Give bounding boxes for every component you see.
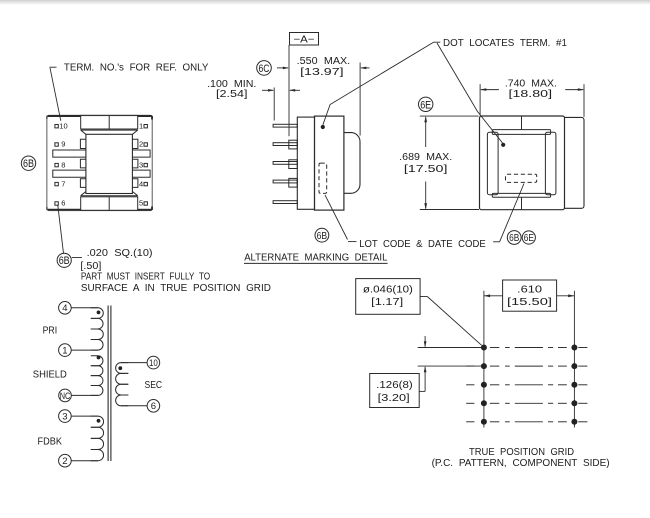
svg-text:TRUE POSITION GRID: TRUE POSITION GRID — [469, 447, 574, 458]
svg-text:10: 10 — [149, 358, 158, 369]
svg-text:6: 6 — [151, 401, 156, 412]
svg-text:[2.54]: [2.54] — [216, 89, 248, 100]
svg-text:6C: 6C — [259, 63, 270, 75]
svg-text:[15.50]: [15.50] — [507, 297, 552, 308]
svg-text:PRI: PRI — [43, 325, 58, 336]
svg-text:9: 9 — [61, 140, 65, 149]
svg-text:.610: .610 — [517, 285, 543, 296]
svg-text:ALTERNATE MARKING DETAIL: ALTERNATE MARKING DETAIL — [244, 253, 388, 264]
svg-text:3: 3 — [62, 412, 67, 423]
svg-text:6B: 6B — [317, 230, 328, 242]
svg-text:10: 10 — [59, 121, 67, 130]
svg-text:[.50]: [.50] — [80, 261, 101, 272]
svg-text:3: 3 — [139, 160, 143, 169]
svg-text:.020 SQ.(10): .020 SQ.(10) — [87, 248, 153, 259]
svg-text:SEC: SEC — [145, 380, 163, 391]
svg-text:6B: 6B — [23, 158, 34, 170]
svg-text:SURFACE A IN TRUE POSITION GRI: SURFACE A IN TRUE POSITION GRID — [81, 283, 271, 294]
svg-text:1: 1 — [62, 346, 67, 357]
svg-text:PART MUST INSERT FULLY TO: PART MUST INSERT FULLY TO — [81, 271, 210, 282]
svg-text:2: 2 — [139, 140, 143, 149]
svg-text:[13.97]: [13.97] — [300, 67, 344, 78]
svg-text:5: 5 — [139, 199, 143, 208]
svg-text:4: 4 — [139, 179, 143, 188]
svg-text:LOT CODE & DATE CODE: LOT CODE & DATE CODE — [359, 239, 486, 250]
svg-text:4: 4 — [62, 303, 67, 314]
svg-text:[3.20]: [3.20] — [378, 393, 410, 404]
svg-text:.550 MAX.: .550 MAX. — [297, 56, 351, 67]
svg-text:(P.C. PATTERN, COMPONENT SIDE): (P.C. PATTERN, COMPONENT SIDE) — [432, 458, 610, 469]
svg-text:−A−: −A− — [294, 34, 315, 45]
svg-text:SHIELD: SHIELD — [33, 370, 67, 381]
svg-text:TERM. NO.'s FOR REF. ONLY: TERM. NO.'s FOR REF. ONLY — [64, 62, 209, 73]
svg-text:.126(8): .126(8) — [376, 380, 413, 391]
svg-text:[18.80]: [18.80] — [509, 89, 553, 100]
svg-text:6E: 6E — [524, 233, 534, 244]
svg-text:[17.50]: [17.50] — [404, 164, 448, 175]
svg-text:.689 MAX.: .689 MAX. — [399, 152, 452, 163]
svg-text:NC: NC — [60, 391, 71, 402]
svg-text:1: 1 — [139, 121, 143, 130]
svg-text:6B: 6B — [509, 233, 519, 244]
svg-text:6E: 6E — [420, 99, 431, 111]
svg-text:DOT LOCATES TERM. #1: DOT LOCATES TERM. #1 — [443, 38, 567, 49]
svg-text:.740 MAX.: .740 MAX. — [505, 78, 557, 89]
svg-text:7: 7 — [61, 179, 65, 188]
svg-text:[1.17]: [1.17] — [371, 297, 403, 308]
svg-text:8: 8 — [61, 160, 65, 169]
svg-text:2: 2 — [62, 456, 67, 467]
svg-text:6: 6 — [61, 199, 65, 208]
svg-text:6B: 6B — [59, 255, 70, 267]
svg-text:ø.046(10): ø.046(10) — [363, 284, 413, 295]
svg-text:FDBK: FDBK — [38, 436, 63, 447]
